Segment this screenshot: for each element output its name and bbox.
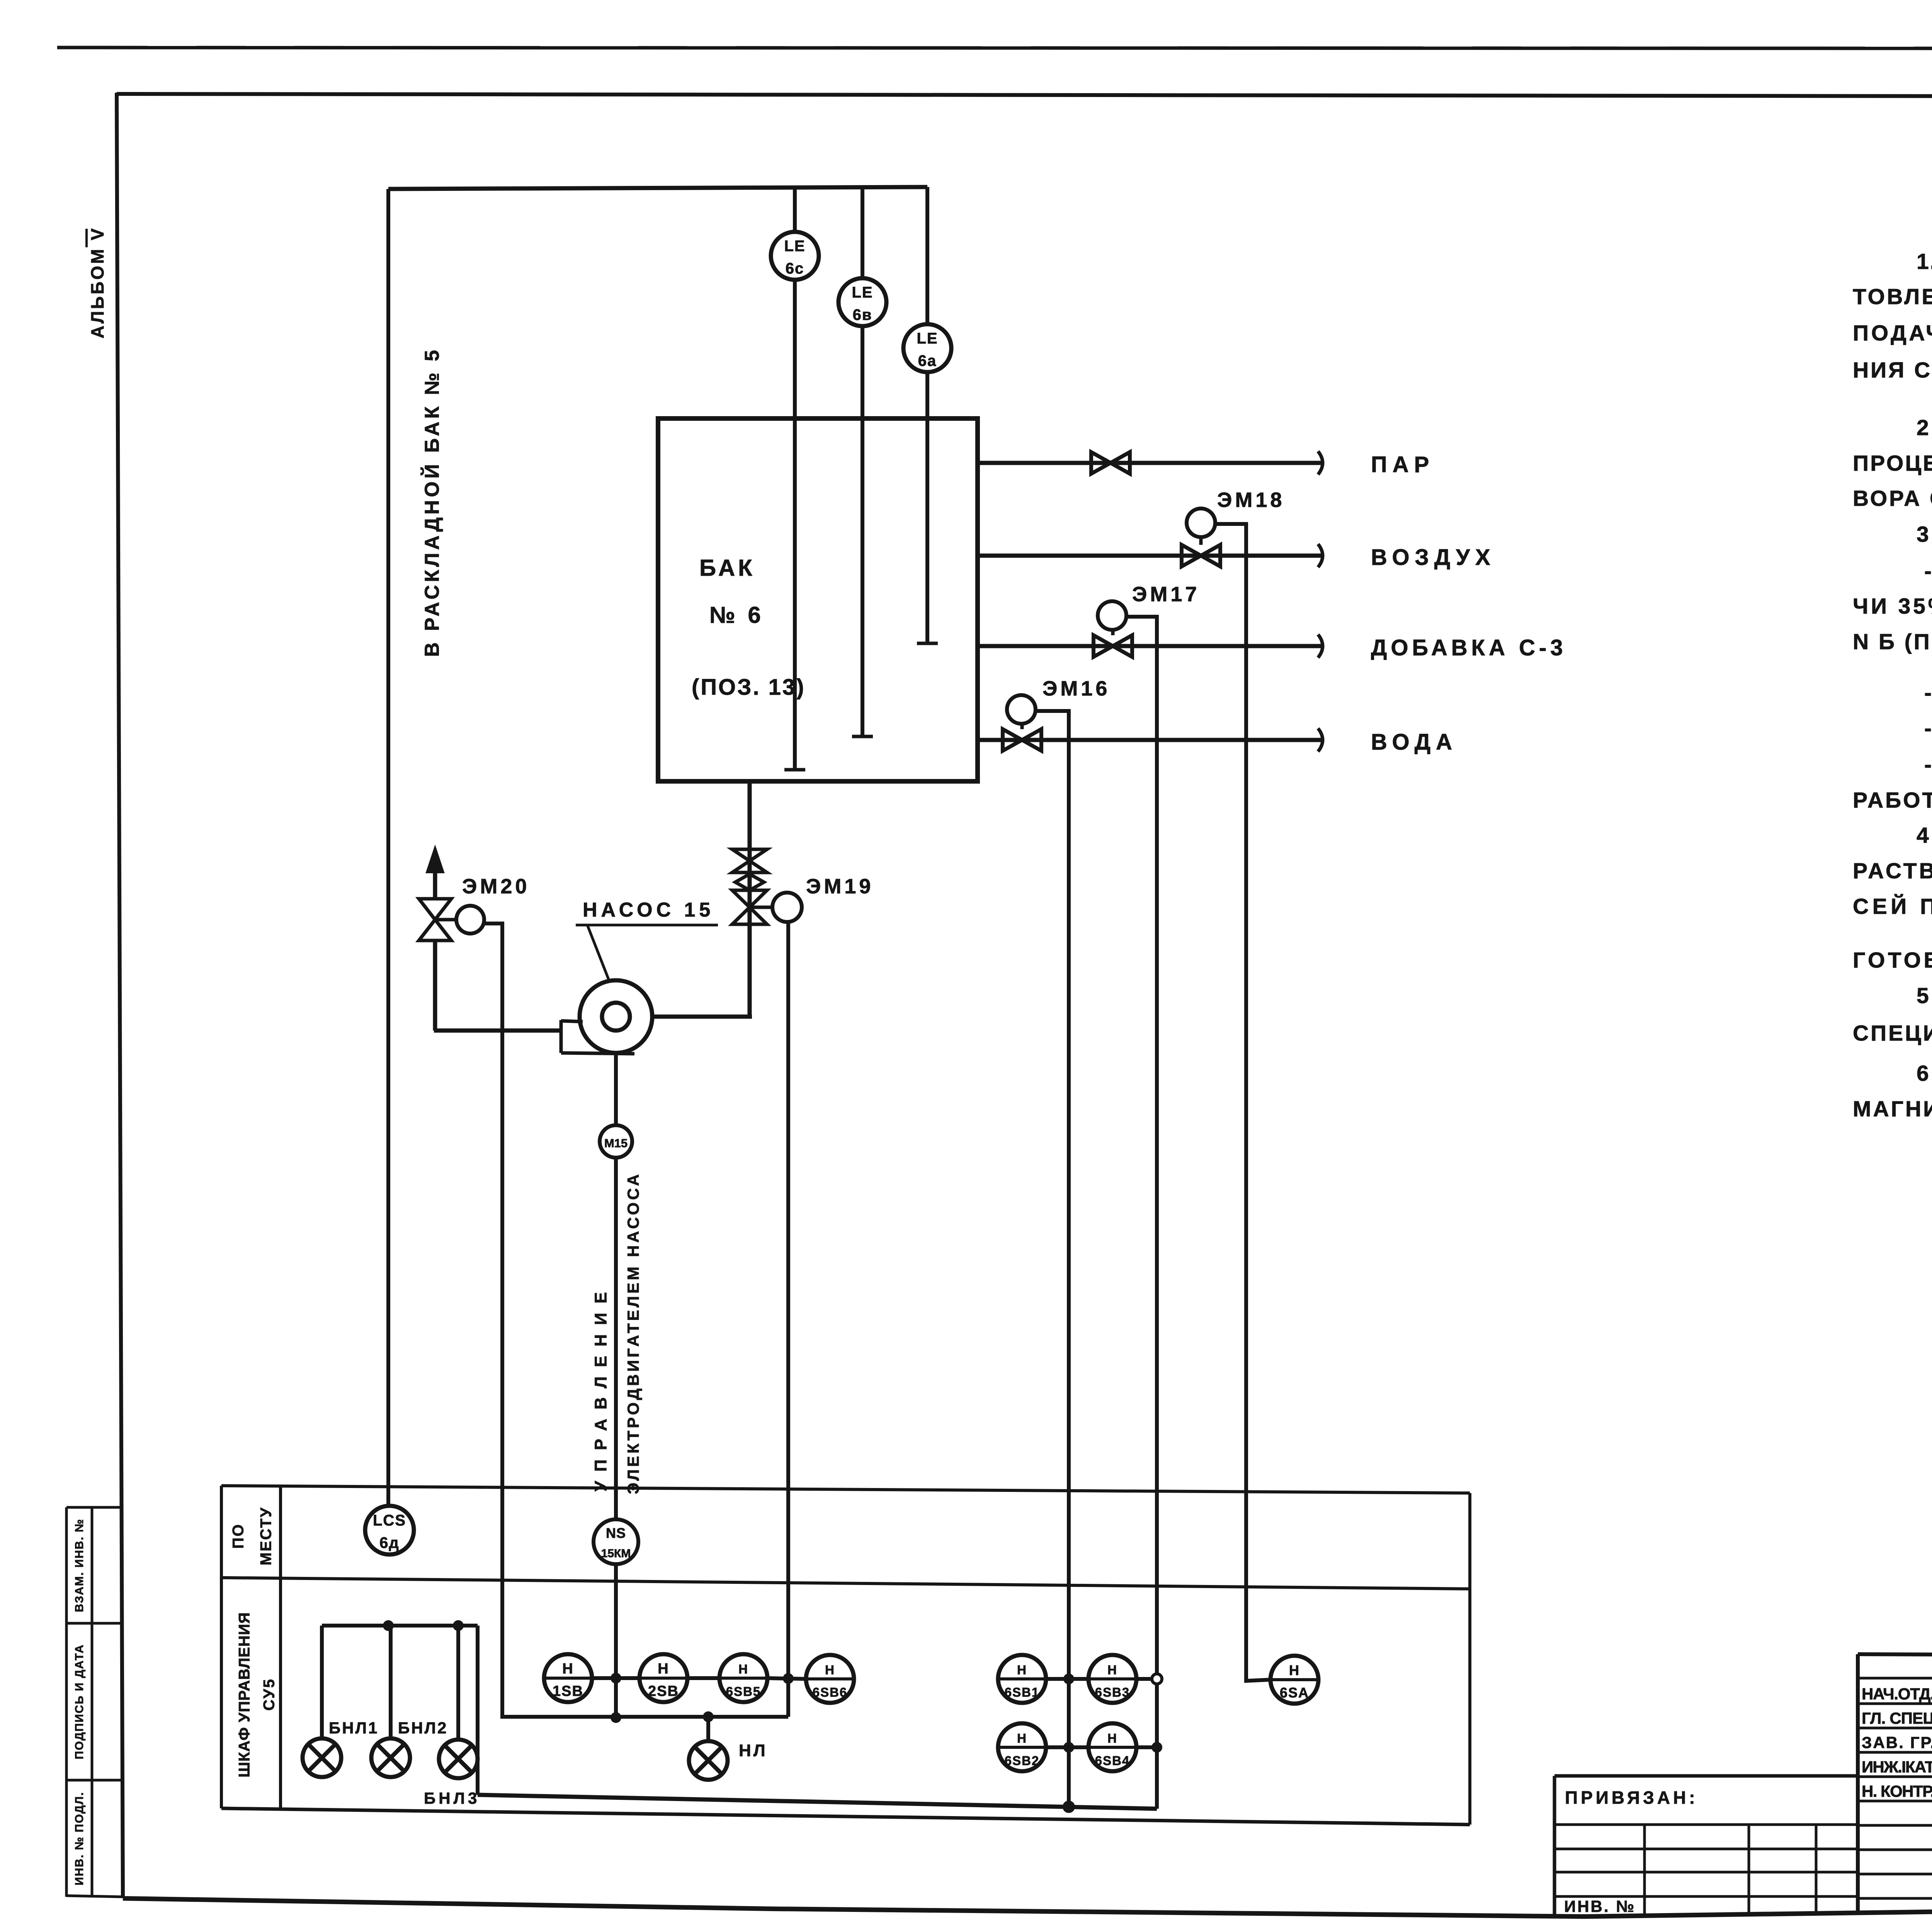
svg-text:СЕЙ ПРИВЕДЕНЫ В ДОКУМЕНТАЦИЮ Н: СЕЙ ПРИВЕДЕНЫ В ДОКУМЕНТАЦИЮ НА УСТАНОВК… <box>1853 894 1932 919</box>
svg-text:НАСОС 15: НАСОС 15 <box>583 899 714 921</box>
svg-text:БНЛ3: БНЛ3 <box>424 1789 480 1807</box>
svg-text:ДОБАВКА С-3: ДОБАВКА С-3 <box>1371 635 1567 660</box>
svg-text:ПРОЦЕССА ПРИГОТОВЛЕНИЯ И ПЕРЕК: ПРОЦЕССА ПРИГОТОВЛЕНИЯ И ПЕРЕКАЧКИ В БСУ… <box>1853 451 1932 476</box>
svg-text:ВОЗДУХ: ВОЗДУХ <box>1371 545 1496 570</box>
svg-text:6с: 6с <box>786 260 804 277</box>
svg-text:Н: Н <box>562 1661 573 1677</box>
svg-text:ТОВЛЕНИЯ РАБОЧЕГО РАСТВОРА СУП: ТОВЛЕНИЯ РАБОЧЕГО РАСТВОРА СУПЕРПЛАСТИФИ… <box>1853 284 1932 309</box>
svg-text:ШКАФ УПРАВЛЕНИЯ: ШКАФ УПРАВЛЕНИЯ <box>236 1611 253 1777</box>
svg-text:ЭЛЕКТРОДВИГАТЕЛЕМ НАСОСА: ЭЛЕКТРОДВИГАТЕЛЕМ НАСОСА <box>624 1173 642 1494</box>
svg-text:ЗАВ. ГР.: ЗАВ. ГР. <box>1862 1733 1932 1752</box>
svg-text:Н: Н <box>1107 1731 1117 1745</box>
svg-text:Н: Н <box>658 1661 669 1677</box>
svg-text:6SВ6: 6SВ6 <box>813 1685 848 1699</box>
svg-text:ЭМ16: ЭМ16 <box>1043 677 1110 700</box>
svg-text:6SА: 6SА <box>1280 1685 1309 1701</box>
svg-text:ВОРА СУПЕРПЛАСТИФИКАТОРА С-3.: ВОРА СУПЕРПЛАСТИФИКАТОРА С-3. <box>1853 486 1932 511</box>
svg-text:Н: Н <box>738 1662 748 1676</box>
svg-text:ЭМ18: ЭМ18 <box>1217 488 1285 512</box>
svg-text:№ 6: № 6 <box>709 602 764 628</box>
svg-text:Н: Н <box>1017 1731 1027 1745</box>
svg-text:6SВ2: 6SВ2 <box>1005 1753 1040 1768</box>
svg-text:6SВ5: 6SВ5 <box>726 1684 761 1699</box>
svg-text:ЭМ20: ЭМ20 <box>462 875 530 898</box>
svg-text:3. СХЕМОЙ АВТОМАТИЗАЦИИ ПРЕДУС: 3. СХЕМОЙ АВТОМАТИЗАЦИИ ПРЕДУСМОТРЕНО: <box>1917 522 1932 547</box>
svg-text:РАБОТЫ НАСОСА.: РАБОТЫ НАСОСА. <box>1853 788 1932 813</box>
svg-text:1SВ: 1SВ <box>553 1683 583 1699</box>
svg-text:ГОТОВЛЕНИЯ РАСТВОРОВ ХИМИЧЕСКИ: ГОТОВЛЕНИЯ РАСТВОРОВ ХИМИЧЕСКИХ ДОБАВОК … <box>1853 948 1932 973</box>
svg-text:РАСТВОРОВ СУЛЬФАТА НАТРИЯ, ЛИГ: РАСТВОРОВ СУЛЬФАТА НАТРИЯ, ЛИГНОСУЛЬФОНА… <box>1853 859 1932 883</box>
svg-text:УПРАВЛЕНИЕ: УПРАВЛЕНИЕ <box>592 1291 611 1492</box>
svg-text:6SВ1: 6SВ1 <box>1005 1685 1040 1699</box>
svg-text:ПОДАЧИ ЭМУЛЬСОЛА СО СКЛАДА В О: ПОДАЧИ ЭМУЛЬСОЛА СО СКЛАДА В ОТДЕЛЕНИЕ П… <box>1853 321 1932 345</box>
svg-text:ПО: ПО <box>230 1523 247 1549</box>
svg-text:ПОДПИСЬ И ДАТА: ПОДПИСЬ И ДАТА <box>73 1644 86 1759</box>
svg-text:БНЛ2: БНЛ2 <box>398 1719 448 1737</box>
svg-text:ЭМ19: ЭМ19 <box>806 875 874 898</box>
svg-text:НЛ: НЛ <box>739 1741 768 1760</box>
svg-text:LCS: LCS <box>373 1512 406 1529</box>
svg-text:НИЯ СМАЗКИ.: НИЯ СМАЗКИ. <box>1853 358 1932 383</box>
svg-text:ЭМ17: ЭМ17 <box>1132 583 1200 606</box>
svg-text:LE: LE <box>784 238 805 255</box>
svg-text:БНЛ1: БНЛ1 <box>329 1719 379 1737</box>
svg-text:АЛЬБОМ V: АЛЬБОМ V <box>87 226 107 338</box>
svg-text:Н. КОНТР.: Н. КОНТР. <box>1862 1782 1932 1800</box>
svg-text:6SВ4: 6SВ4 <box>1095 1753 1130 1768</box>
svg-text:ИНЖ.IКАТ: ИНЖ.IКАТ <box>1862 1758 1932 1776</box>
svg-text:СУ5: СУ5 <box>261 1678 278 1711</box>
svg-text:ИНВ. № ПОДЛ.: ИНВ. № ПОДЛ. <box>73 1792 86 1886</box>
svg-text:1. В ПРОЕКТЕ РАЗРАБОТАНЫ СХЕМЫ: 1. В ПРОЕКТЕ РАЗРАБОТАНЫ СХЕМЫ АВТОМАТИЗ… <box>1917 249 1932 274</box>
svg-text:М15: М15 <box>604 1136 628 1150</box>
svg-text:LE: LE <box>917 330 938 347</box>
svg-text:МАГНИТНОГО ПУСКАТЕЛЯ.: МАГНИТНОГО ПУСКАТЕЛЯ. <box>1853 1097 1932 1121</box>
svg-text:6SВ3: 6SВ3 <box>1095 1685 1130 1699</box>
svg-text:В РАСКЛАДНОЙ БАК № 5: В РАСКЛАДНОЙ БАК № 5 <box>421 348 444 657</box>
svg-text:- ДИСТАНЦИОННОЕ УПРАВЛЕНИЕ НАС: - ДИСТАНЦИОННОЕ УПРАВЛЕНИЕ НАСОСОМ (ПОЗ.… <box>1924 716 1932 741</box>
svg-text:2. НА ДАННОМ ЛИСТЕ ПРИВЕДЕНА С: 2. НА ДАННОМ ЛИСТЕ ПРИВЕДЕНА СХЕМА АВТОМ… <box>1917 415 1932 440</box>
svg-text:(ПОЗ. 13): (ПОЗ. 13) <box>692 675 806 700</box>
svg-text:Н: Н <box>825 1663 835 1677</box>
svg-text:ГЛ. СПЕЦ: ГЛ. СПЕЦ <box>1862 1709 1932 1727</box>
svg-text:6а: 6а <box>918 352 937 369</box>
svg-text:15КМ: 15КМ <box>601 1547 631 1560</box>
svg-text:ВЗАМ. ИНВ. №: ВЗАМ. ИНВ. № <box>73 1519 86 1612</box>
svg-text:СПЕЦИФИКАЦИИ ОБОРУДОВАНИЯ.: СПЕЦИФИКАЦИИ ОБОРУДОВАНИЯ. <box>1853 1021 1932 1046</box>
svg-text:Н: Н <box>1017 1663 1027 1677</box>
svg-text:МЕСТУ: МЕСТУ <box>258 1507 275 1565</box>
svg-text:ПРИВЯЗАН:: ПРИВЯЗАН: <box>1565 1787 1698 1808</box>
svg-text:N Б (ПОЗ.13 ТХ.СО);: N Б (ПОЗ.13 ТХ.СО); <box>1853 629 1932 654</box>
svg-text:6д: 6д <box>379 1534 400 1551</box>
svg-text:Н: Н <box>1289 1662 1300 1678</box>
svg-text:LE: LE <box>852 284 873 301</box>
svg-text:6. РЕЗЕРВНАЯ БУКВА N ПРИМЕНЕНА: 6. РЕЗЕРВНАЯ БУКВА N ПРИМЕНЕНА ДЛЯ ОБОЗН… <box>1917 1061 1932 1086</box>
svg-text:Н: Н <box>1107 1663 1117 1677</box>
svg-text:НАЧ.ОТД.: НАЧ.ОТД. <box>1862 1685 1932 1703</box>
svg-text:- СИГНАЛИЗАЦИЯ УРОВНЕЙ КОМПОНЕ: - СИГНАЛИЗАЦИЯ УРОВНЕЙ КОМПОНЕНТОВ В БАК… <box>1924 752 1932 777</box>
svg-text:- УПРАВЛЕНИЕ ВЕНТИЛЯМИ ПОДАЧИ: - УПРАВЛЕНИЕ ВЕНТИЛЯМИ ПОДАЧИ ВОДЫ (ЭМ16… <box>1924 559 1932 583</box>
svg-text:ЧИ 35%-ГО РАСТВОРА С-3 (ЭМ17): ЧИ 35%-ГО РАСТВОРА С-3 (ЭМ17) В ПРИГОТОВ… <box>1853 594 1932 619</box>
svg-text:4. СХЕМЫ АВТОМАТИЗАЦИИ ПРОЦЕСС: 4. СХЕМЫ АВТОМАТИЗАЦИИ ПРОЦЕССОВ ПРИГОТО… <box>1917 823 1932 848</box>
svg-text:6в: 6в <box>853 306 872 323</box>
svg-text:2SВ: 2SВ <box>648 1683 679 1699</box>
svg-text:- УПРАВЛЕНИЕ ВЕНТИЛЕМ ПОДАЧИ В: - УПРАВЛЕНИЕ ВЕНТИЛЕМ ПОДАЧИ ВОЗДУХА (ЭМ… <box>1924 680 1932 705</box>
svg-text:NS: NS <box>606 1525 626 1541</box>
svg-text:ИНВ. №: ИНВ. № <box>1564 1897 1636 1915</box>
svg-text:ПАР: ПАР <box>1371 452 1434 477</box>
svg-text:БАК: БАК <box>699 555 755 581</box>
svg-text:5. НОМЕРА ПОЗИЦИЙ ПРИБОРОВ ПРИ: 5. НОМЕРА ПОЗИЦИЙ ПРИБОРОВ ПРИНЯТЫ СОГЛА… <box>1917 983 1932 1008</box>
svg-text:ВОДА: ВОДА <box>1371 730 1458 755</box>
